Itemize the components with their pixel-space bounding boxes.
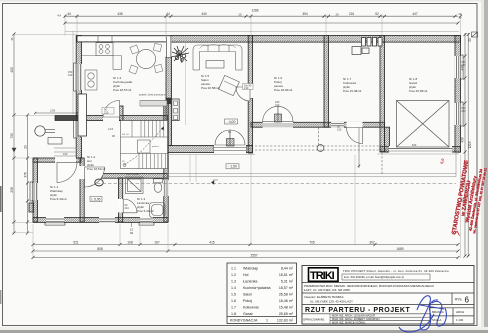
svg-text:18,57 m²: 18,57 m² [279, 286, 294, 290]
svg-text:Hol: Hol [243, 273, 249, 277]
svg-text:15,48 m²: 15,48 m² [279, 306, 294, 310]
svg-text:- 1,50: - 1,50 [228, 165, 237, 169]
svg-text:TRIKI: TRIKI [310, 270, 335, 282]
svg-text:1.8: 1.8 [231, 312, 236, 316]
svg-text:210: 210 [275, 103, 280, 107]
svg-text:1219: 1219 [468, 141, 472, 148]
svg-text:733: 733 [10, 133, 14, 139]
svg-text:29: 29 [336, 13, 339, 17]
svg-text:26,58 m²: 26,58 m² [279, 293, 294, 297]
svg-text:Pow 15,48m2: Pow 15,48m2 [343, 89, 362, 93]
svg-text:29: 29 [239, 13, 242, 17]
svg-text:210: 210 [104, 110, 109, 114]
svg-text:2,59: 2,59 [50, 109, 56, 113]
svg-text:RZUT PARTERU - PROJEKT: RZUT PARTERU - PROJEKT [305, 307, 410, 314]
svg-text:6: 6 [465, 296, 470, 305]
svg-text:2557: 2557 [250, 254, 257, 258]
svg-text:kom. 601 291199, e-mail: biuro: kom. 601 291199, e-mail: biuro@trikproje… [344, 275, 404, 279]
svg-text:8,44 m²: 8,44 m² [281, 267, 294, 271]
svg-text:Pokój: Pokój [243, 299, 252, 303]
svg-text:Wiatrołap: Wiatrołap [243, 267, 258, 271]
svg-text:44: 44 [67, 12, 71, 16]
svg-text:1.2: 1.2 [231, 273, 236, 277]
svg-text:440: 440 [461, 65, 465, 71]
svg-text:1:100: 1:100 [456, 318, 464, 322]
svg-text:Łazienka: Łazienka [243, 280, 257, 284]
svg-text:Pow 18,46m2: Pow 18,46m2 [274, 88, 293, 92]
svg-text:Inwestor: ELŻBIETA TRABKA: Inwestor: ELŻBIETA TRABKA [304, 294, 344, 299]
svg-text:298: 298 [10, 187, 14, 193]
svg-text:Pow 8,44m2: Pow 8,44m2 [50, 197, 67, 201]
svg-text:376: 376 [24, 172, 28, 178]
svg-text:UL. MŁYNEK 129, 42-450 ŁAZY: UL. MŁYNEK 129, 42-450 ŁAZY [310, 299, 353, 303]
svg-text:OPRACOWANIE:: OPRACOWANIE: [303, 317, 325, 321]
svg-text:Kuchnia+jadalnia: Kuchnia+jadalnia [243, 286, 270, 290]
svg-text:L 5,95: L 5,95 [91, 197, 100, 201]
svg-text:705: 705 [309, 241, 315, 245]
svg-text:Pow 18,57m2: Pow 18,57m2 [113, 88, 132, 92]
svg-text:KONDYGNACJA: KONDYGNACJA [230, 319, 258, 323]
svg-text:9x17,8: 9x17,8 [122, 134, 129, 136]
svg-text:Pow 18,51m2: Pow 18,51m2 [87, 167, 106, 171]
svg-text:447: 447 [412, 12, 418, 16]
svg-text:Kotłownia: Kotłownia [243, 306, 259, 310]
svg-text:16x17,8/28: 16x17,8/28 [126, 172, 139, 176]
svg-text:Salon: Salon [243, 293, 252, 297]
svg-text:ŁAZY, UL. MŁYNEK, DZ. NR 2065.: ŁAZY, UL. MŁYNEK, DZ. NR 2065. [304, 288, 351, 292]
svg-text:RYS.: RYS. [455, 298, 462, 302]
svg-text:415: 415 [209, 241, 215, 245]
svg-text:1286: 1286 [251, 9, 258, 13]
svg-text:394: 394 [302, 12, 308, 16]
svg-text:1.7: 1.7 [231, 306, 236, 310]
svg-text:100: 100 [63, 152, 68, 156]
svg-text:Pow 26,58m2: Pow 26,58m2 [201, 86, 220, 90]
svg-text:BRANŻA: BRANŻA [432, 309, 444, 314]
svg-text:167: 167 [154, 241, 160, 245]
svg-text:Pow 5,31m2: Pow 5,31m2 [137, 209, 154, 213]
svg-text:100: 100 [68, 73, 73, 77]
svg-text:44: 44 [166, 12, 170, 16]
svg-text:1.4: 1.4 [231, 286, 236, 290]
svg-text:Pow 25,65m2: Pow 25,65m2 [409, 89, 428, 93]
svg-text:1.6: 1.6 [231, 299, 236, 303]
svg-text:44: 44 [10, 37, 14, 40]
svg-text:29: 29 [468, 38, 472, 42]
svg-text:400: 400 [10, 67, 14, 73]
svg-text:2,15: 2,15 [108, 127, 114, 131]
svg-text:18,46 m²: 18,46 m² [279, 299, 294, 303]
svg-text:216: 216 [349, 12, 355, 16]
svg-text:projekt. drzwi przesuwne: projekt. drzwi przesuwne [139, 94, 166, 97]
svg-text:52: 52 [375, 12, 379, 16]
svg-text:108: 108 [127, 241, 133, 245]
svg-text:808: 808 [97, 247, 103, 251]
svg-text:210: 210 [337, 128, 342, 132]
svg-text:Garaż: Garaż [243, 312, 253, 316]
svg-text:521: 521 [73, 241, 79, 245]
svg-text:120: 120 [461, 109, 466, 113]
svg-text:18,51 m²: 18,51 m² [279, 273, 294, 277]
svg-text:1: 1 [266, 319, 268, 323]
svg-text:302: 302 [369, 241, 375, 245]
svg-text:132,83 m²: 132,83 m² [277, 319, 294, 323]
svg-text:podest: podest [152, 145, 159, 148]
svg-text:29: 29 [24, 145, 28, 149]
svg-text:210: 210 [244, 86, 249, 90]
svg-text:- 4,00: - 4,00 [227, 120, 236, 124]
svg-text:430: 430 [461, 137, 465, 143]
svg-text:5,31 m²: 5,31 m² [281, 280, 294, 284]
svg-text:440: 440 [201, 12, 207, 16]
svg-text:523: 523 [412, 143, 417, 147]
svg-text:ARCH: ARCH [456, 310, 464, 314]
svg-text:25,65 m²: 25,65 m² [279, 312, 294, 316]
svg-text:4,4: 4,4 [57, 14, 61, 18]
svg-text:02: 02 [130, 231, 134, 235]
svg-text:1.1: 1.1 [231, 267, 236, 271]
svg-text:1689: 1689 [396, 247, 403, 251]
svg-text:435: 435 [117, 12, 123, 16]
svg-text:TRIK PROJEKT Robert Jaworski -: TRIK PROJEKT Robert Jaworski - ul. Gen. … [343, 269, 449, 273]
svg-text:1.3: 1.3 [231, 280, 236, 284]
svg-text:210: 210 [125, 206, 130, 210]
svg-text:1.5: 1.5 [231, 293, 236, 297]
